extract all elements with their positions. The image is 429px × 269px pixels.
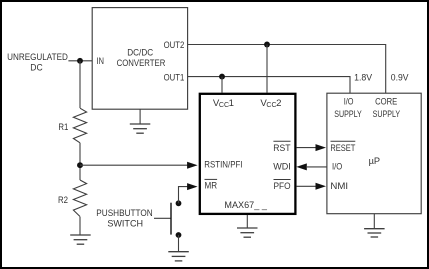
label DC/DC CONVERTER (117, 48, 166, 69)
label UNREGULATED DC (7, 52, 68, 74)
svg-text:0.9V: 0.9V (391, 73, 409, 84)
pin VCC1 (213, 98, 234, 109)
svg-text:MAX67_ _: MAX67_ _ (224, 200, 267, 211)
pin MR with overbar (205, 179, 218, 191)
node junction dot mid-divider (77, 162, 83, 168)
svg-text:RESET: RESET (330, 143, 355, 154)
resistor R2 (73, 180, 86, 217)
svg-text:WDI: WDI (273, 161, 291, 172)
svg-text:CONVERTER: CONVERTER (117, 58, 166, 69)
arrow into MR (187, 183, 198, 190)
svg-text:OUT2: OUT2 (164, 40, 185, 51)
node junction dot OUT1/VCC1 (219, 74, 225, 80)
svg-text:SWITCH: SWITCH (107, 218, 143, 229)
pushbutton switch S1 (154, 200, 181, 238)
svg-text:CC: CC (219, 102, 229, 109)
wire divider to RSTIN/PFI (80, 164, 189, 166)
MAX67 supervisor U1 box (200, 94, 296, 214)
svg-text:R2: R2 (58, 195, 68, 206)
wire VCC2 drop (266, 45, 268, 93)
wire DC/DC to ground (139, 109, 141, 124)
svg-text:SUPPLY: SUPPLY (334, 109, 362, 120)
actuator stem (154, 217, 171, 219)
svg-text:PFO: PFO (274, 181, 291, 192)
wire MAX67 to ground (246, 215, 248, 228)
svg-text:OUT1: OUT1 (164, 72, 185, 83)
wire dot down to R1 (79, 61, 81, 108)
microprocessor U3 box (327, 93, 421, 214)
wire R2 to ground (79, 217, 81, 235)
DC/DC converter U2 box (92, 8, 187, 110)
svg-text:µP: µP (369, 156, 381, 167)
label I/O SUPPLY (334, 97, 362, 120)
wire I/O to WDI (307, 166, 327, 168)
svg-text:CC: CC (266, 102, 276, 109)
svg-text:DC: DC (30, 63, 42, 74)
resistor R1 (73, 108, 86, 143)
arrow into WDI (296, 163, 307, 170)
svg-text:UNREGULATED: UNREGULATED (7, 52, 68, 63)
svg-text:1: 1 (229, 98, 234, 109)
wire switch to ground (178, 235, 180, 252)
ground below switch (168, 252, 189, 261)
svg-text:2: 2 (276, 98, 281, 109)
ground below R2 (70, 235, 91, 244)
wire R1 to R2 (79, 143, 81, 180)
wire OUT2 to 0.9V corner (188, 45, 386, 94)
svg-text:I/O: I/O (332, 162, 342, 173)
ground below MAX67 (237, 228, 258, 237)
wire RST to RESET (297, 147, 318, 149)
arrow into RESET (316, 144, 327, 151)
ground below DC/DC converter (130, 124, 151, 133)
svg-text:PUSHBUTTON: PUSHBUTTON (96, 208, 152, 219)
svg-text:CORE: CORE (375, 97, 397, 108)
arrow into NMI (316, 183, 327, 190)
pin RST with overbar (273, 141, 290, 154)
pin VCC2 (260, 98, 281, 109)
wire OUT1 to 1.8V corner (188, 77, 350, 94)
svg-text:I/O: I/O (344, 97, 354, 108)
svg-text:DC/DC: DC/DC (127, 48, 153, 59)
terminal bottom (176, 232, 182, 238)
wire uP to ground (373, 214, 375, 229)
wire switch to MR (179, 187, 190, 204)
ground below uP (364, 229, 385, 237)
svg-text:NMI: NMI (330, 181, 348, 192)
pin RESET with overbar (330, 141, 355, 154)
wire VCC1 drop (221, 77, 223, 93)
wire unregulated dc to IN (68, 60, 92, 62)
svg-text:MR: MR (205, 181, 218, 192)
svg-text:SUPPLY: SUPPLY (373, 109, 401, 120)
wire PFO to NMI (297, 185, 318, 187)
label CORE SUPPLY (373, 97, 401, 120)
node junction dot at IN (77, 58, 83, 64)
svg-text:1.8V: 1.8V (354, 73, 373, 84)
terminal top (176, 200, 182, 206)
pin PFO with overbar (274, 180, 291, 193)
node junction dot OUT2/VCC2 (264, 42, 270, 48)
label PUSHBUTTON SWITCH (96, 208, 152, 230)
svg-text:RSTIN/PFI: RSTIN/PFI (204, 159, 242, 170)
contact bar (170, 203, 172, 235)
svg-text:R1: R1 (58, 122, 68, 133)
arrow into RSTIN/PFI (187, 162, 198, 169)
svg-text:IN: IN (97, 56, 104, 67)
svg-text:RST: RST (273, 143, 290, 154)
